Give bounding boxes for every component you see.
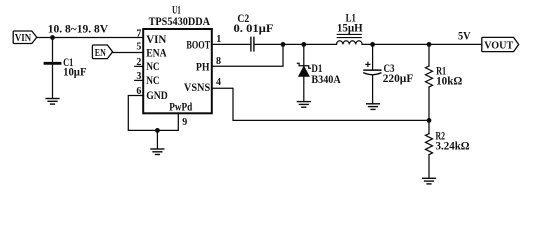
svg-text:6: 6 — [136, 86, 141, 97]
svg-text:5V: 5V — [458, 31, 471, 43]
wire R2 top — [428, 120, 430, 133]
svg-text:U1: U1 — [172, 4, 181, 16]
ground (under D1) — [297, 102, 310, 108]
svg-text:10µF: 10µF — [63, 67, 86, 79]
svg-text:220µF: 220µF — [383, 73, 414, 85]
svg-text:7: 7 — [136, 28, 141, 39]
svg-text:5: 5 — [136, 42, 141, 53]
wire pin1 BOOT to C2 — [213, 43, 250, 45]
wire C3 branch — [372, 44, 374, 69]
wire R1 top — [428, 44, 430, 66]
node (C2/PH junction) — [281, 42, 286, 47]
svg-text:B340A: B340A — [311, 74, 341, 86]
ground (IC) — [151, 149, 164, 155]
svg-text:ENA: ENA — [146, 47, 167, 59]
svg-text:TPS5430DDA: TPS5430DDA — [149, 16, 211, 28]
svg-text:VIN: VIN — [15, 32, 31, 44]
wire EN to pin5 — [113, 52, 143, 54]
svg-text:PwPd: PwPd — [169, 102, 192, 114]
svg-text:EN: EN — [95, 47, 106, 59]
svg-text:2: 2 — [136, 57, 141, 68]
wire R2 to ground — [428, 155, 430, 178]
svg-text:10kΩ: 10kΩ — [436, 76, 462, 88]
wire GND pin6 to bottom — [128, 96, 178, 131]
svg-text:VSNS: VSNS — [184, 82, 210, 94]
port EN — [92, 45, 112, 59]
node (R1 junction) — [427, 42, 432, 47]
svg-text:VIN: VIN — [146, 34, 167, 46]
wire IC ground stem — [156, 130, 158, 148]
inductor L1 — [337, 34, 363, 44]
svg-text:VOUT: VOUT — [484, 40, 514, 52]
wire rail to VOUT — [362, 43, 482, 45]
capacitor C1 — [45, 62, 60, 65]
wire C2 to rail — [255, 43, 337, 45]
node A (VIN/C1 junction) — [50, 35, 55, 40]
wire D1 branch — [303, 44, 305, 65]
svg-text:GND: GND — [146, 90, 168, 102]
svg-text:4: 4 — [216, 77, 221, 88]
op-amp U1 (IC box) — [143, 29, 212, 113]
port VOUT — [482, 37, 519, 51]
wire VSNS feedback — [213, 88, 429, 120]
node (feedback junction) — [427, 118, 432, 123]
port VIN — [13, 31, 37, 44]
capacitor C2 — [250, 37, 252, 51]
svg-text:BOOT: BOOT — [186, 40, 210, 52]
ground (under C3) — [367, 104, 380, 110]
svg-text:9: 9 — [182, 117, 187, 128]
wire pin8 PH — [213, 44, 283, 66]
node (D1 junction) — [301, 42, 306, 47]
node (C3 junction) — [370, 42, 375, 47]
svg-text:3.24kΩ: 3.24kΩ — [436, 141, 470, 153]
pin 2 stub — [135, 65, 142, 67]
node (IC ground junction) — [155, 128, 160, 133]
resistor R2 — [426, 134, 433, 155]
resistor R1 — [426, 66, 433, 87]
ground (under C1) — [46, 99, 59, 105]
svg-text:NC: NC — [146, 61, 160, 73]
ground (under R2) — [423, 178, 436, 184]
svg-text:NC: NC — [146, 75, 160, 87]
svg-text:10. 8~19. 8V: 10. 8~19. 8V — [48, 23, 109, 35]
capacitor C3 (polarized) — [364, 62, 381, 103]
pin 3 stub — [135, 79, 142, 81]
svg-text:3: 3 — [136, 71, 141, 82]
svg-text:1: 1 — [216, 34, 221, 45]
svg-text:PH: PH — [196, 62, 210, 74]
diode D1 (schottky) — [297, 63, 310, 101]
wire C1 branch — [52, 38, 54, 98]
svg-text:0. 01µF: 0. 01µF — [234, 23, 274, 35]
svg-text:8: 8 — [216, 56, 221, 67]
wire VIN to pin7 — [37, 37, 142, 39]
wire R1 to junction — [428, 87, 430, 120]
svg-text:15µH: 15µH — [337, 23, 363, 35]
